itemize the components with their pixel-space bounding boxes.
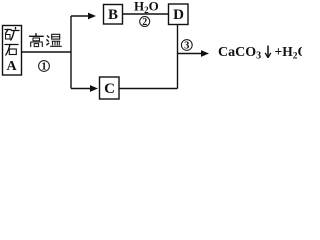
svg-text:C: C [104,81,115,97]
svg-text:2: 2 [142,17,147,28]
svg-text:1: 1 [41,62,46,73]
svg-text:A: A [6,59,17,74]
svg-text:B: B [108,7,118,23]
svg-text:H2O: H2O [134,0,159,15]
svg-text:3: 3 [184,41,189,52]
svg-text:D: D [173,7,184,23]
svg-text:+H2O: +H2O [275,44,303,62]
svg-text:CaCO3: CaCO3 [218,45,261,62]
